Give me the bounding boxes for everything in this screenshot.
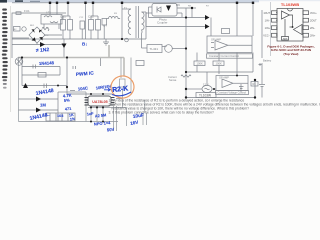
svg-text:5%: 5%	[64, 97, 71, 103]
svg-text:TL103W: TL103W	[199, 94, 211, 98]
svg-text:100K: 100K	[216, 62, 222, 66]
svg-text:12 V: 12 V	[203, 83, 209, 87]
svg-text:Coupler: Coupler	[157, 21, 168, 25]
svg-text:R9: R9	[176, 3, 180, 7]
svg-text:TL431: TL431	[150, 47, 159, 51]
svg-text:3. If this problem cannot be s: 3. If this problem cannot be solved, wha…	[109, 111, 215, 115]
svg-text:OP AMP: OP AMP	[211, 38, 221, 42]
svg-text:Constant Voltage Control: Constant Voltage Control	[218, 91, 247, 95]
svg-text:TL103WB: TL103WB	[281, 2, 299, 7]
svg-text:2IN+: 2IN+	[310, 34, 316, 37]
svg-text:1OUT: 1OUT	[263, 12, 270, 15]
svg-text:Battery: Battery	[263, 59, 272, 63]
svg-text:104C: 104C	[78, 85, 88, 91]
svg-text:CY: CY	[103, 24, 107, 28]
svg-text:103: 103	[57, 114, 63, 118]
svg-text:OP AMP: OP AMP	[219, 76, 229, 80]
svg-text:—: —	[46, 114, 50, 118]
svg-text:2OUT: 2OUT	[310, 19, 317, 22]
svg-text:Sense: Sense	[169, 78, 177, 82]
svg-text:VCC−: VCC−	[263, 34, 270, 37]
svg-text:CX2: CX2	[88, 15, 94, 19]
svg-text:UA78L05: UA78L05	[92, 100, 107, 104]
svg-text:Constant Current Control: Constant Current Control	[209, 54, 239, 58]
svg-text:B↓: B↓	[82, 42, 88, 47]
svg-text:AC: AC	[14, 28, 17, 31]
svg-text:≠ 1N2: ≠ 1N2	[36, 47, 50, 54]
svg-text:1M: 1M	[40, 103, 46, 108]
svg-text:2IN−: 2IN−	[310, 27, 316, 30]
svg-text:VCC+: VCC+	[310, 12, 317, 15]
svg-text:NTC: NTC	[44, 35, 49, 37]
svg-text:1IN−: 1IN−	[265, 19, 271, 22]
svg-text:100K: 100K	[197, 62, 203, 66]
svg-text:LF1: LF1	[46, 11, 52, 15]
svg-text:FU1: FU1	[24, 9, 30, 13]
svg-text:CX1: CX1	[60, 15, 66, 19]
svg-text:50V: 50V	[107, 127, 115, 133]
svg-text:REF: REF	[283, 39, 288, 41]
svg-text:1IN+: 1IN+	[265, 27, 271, 30]
svg-text:(Top View): (Top View)	[284, 52, 299, 56]
svg-text:1N4148: 1N4148	[39, 60, 55, 66]
